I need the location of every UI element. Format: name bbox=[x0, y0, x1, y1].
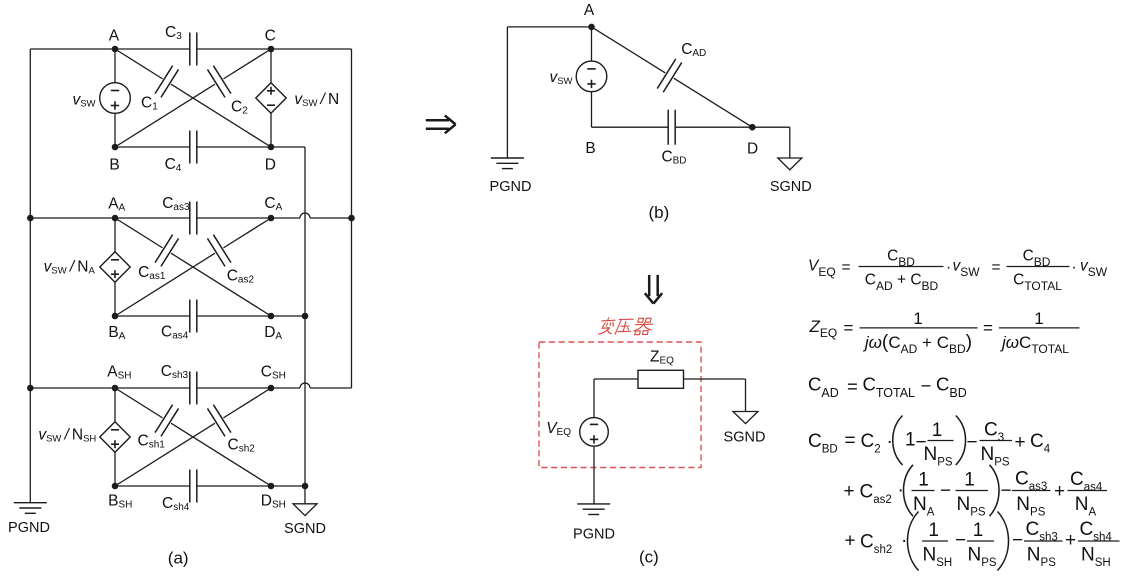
wire bottom row1 right segment bbox=[197, 146, 306, 148]
wire diagonal A to D row2 bbox=[115, 218, 163, 248]
svg-text:PGND: PGND bbox=[8, 520, 50, 536]
svg-text:−: − bbox=[921, 375, 932, 396]
left paren 4a bbox=[893, 416, 903, 465]
node ASH bbox=[112, 385, 119, 392]
svg-text:−: − bbox=[940, 481, 951, 502]
equation ZEQ line 2 bbox=[809, 309, 1080, 356]
ground PGND (b) bbox=[491, 158, 524, 169]
node BSH bbox=[112, 483, 119, 490]
ground PGND (c) bbox=[577, 504, 610, 515]
wire source bottom to PGND bbox=[593, 446, 595, 504]
junction inner rail row3 bbox=[302, 483, 309, 490]
arrow implies right bbox=[426, 116, 456, 134]
wire left rail bbox=[29, 49, 31, 503]
svg-text:·: · bbox=[901, 531, 907, 552]
voltage source vSW bbox=[100, 83, 131, 114]
capacitor Cas4 bbox=[190, 300, 197, 333]
svg-text:SGND: SGND bbox=[770, 179, 812, 195]
wire D to SGND corner bbox=[752, 126, 790, 128]
svg-text:·: · bbox=[1072, 259, 1077, 276]
svg-text:D: D bbox=[747, 141, 758, 158]
junction inner rail row2 bbox=[302, 313, 309, 320]
junction left rail row3 bbox=[27, 385, 34, 392]
wire bottom row1 left segment bbox=[115, 146, 190, 148]
capacitor CBD bbox=[668, 110, 675, 145]
capacitor Cas2 bbox=[207, 235, 230, 267]
svg-text:=: = bbox=[992, 259, 1001, 276]
wire bottom row3 right segment bbox=[197, 485, 306, 487]
svg-text:+: + bbox=[1065, 530, 1076, 551]
svg-text:1: 1 bbox=[928, 520, 939, 541]
wire top row2 left segment bbox=[30, 217, 189, 219]
wire ZEQ to SGND corner bbox=[684, 378, 746, 380]
svg-text:=: = bbox=[844, 319, 854, 338]
wire diagonal C to B row1 bbox=[223, 49, 271, 79]
capacitor CAD bbox=[657, 59, 681, 92]
equation CBD line 4c bbox=[845, 512, 1120, 571]
wire right outer rail bbox=[351, 49, 353, 388]
junction left rail row2 bbox=[27, 215, 34, 222]
wire A to PGND corner bbox=[507, 26, 591, 28]
equation CAD line 3 bbox=[808, 374, 967, 401]
node D (b) bbox=[749, 124, 756, 131]
capacitor Cas1 bbox=[155, 235, 178, 267]
svg-text:1: 1 bbox=[932, 420, 943, 441]
wire top row3 left segment bbox=[30, 387, 189, 389]
wire bottom row2 left segment bbox=[115, 315, 190, 317]
capacitor Csh2 bbox=[207, 405, 230, 437]
svg-text:−: − bbox=[1012, 530, 1023, 551]
wire bottom row2 right segment bbox=[197, 315, 306, 317]
node A (b) bbox=[588, 24, 595, 31]
wire source column left row2 bbox=[114, 218, 116, 252]
dependent source vSW/NSH bbox=[100, 422, 130, 452]
wire source column left row3 bbox=[114, 388, 116, 422]
capacitor Cas3 bbox=[190, 202, 197, 235]
right paren 4b bbox=[990, 465, 1000, 516]
wire diagonal A to D bbox=[592, 27, 666, 73]
svg-text:1: 1 bbox=[1034, 309, 1043, 328]
svg-text:+: + bbox=[845, 531, 856, 552]
node A bbox=[112, 46, 119, 53]
wire A to source bbox=[591, 27, 593, 61]
svg-text:1: 1 bbox=[918, 470, 929, 491]
node AA bbox=[112, 215, 119, 222]
svg-text:·: · bbox=[887, 432, 893, 453]
wire top row2 mid segment bbox=[197, 217, 301, 219]
wire top row1 left segment bbox=[30, 48, 189, 50]
svg-text:B: B bbox=[109, 156, 119, 173]
capacitor C3 bbox=[190, 33, 197, 66]
svg-text:PGND: PGND bbox=[490, 179, 532, 195]
svg-text:+: + bbox=[844, 481, 855, 502]
right paren 4a bbox=[956, 416, 966, 465]
node BA bbox=[112, 313, 119, 320]
svg-text:SGND: SGND bbox=[284, 521, 326, 537]
voltage source VEQ bbox=[580, 418, 609, 447]
ground PGND (a) bbox=[14, 503, 47, 514]
svg-text:vSW / N: vSW / N bbox=[294, 91, 339, 109]
svg-text:SGND: SGND bbox=[724, 430, 766, 446]
svg-text:1: 1 bbox=[964, 470, 975, 491]
wire inner rail D to SGND bbox=[304, 147, 306, 504]
svg-text:·: · bbox=[946, 259, 951, 276]
node CA bbox=[268, 215, 275, 222]
svg-text:B: B bbox=[585, 140, 595, 157]
svg-text:(a): (a) bbox=[168, 549, 189, 568]
wire hop over inner rail bbox=[300, 383, 310, 388]
node DSH bbox=[268, 483, 275, 490]
svg-text:C: C bbox=[265, 28, 276, 45]
capacitor Csh1 bbox=[155, 405, 178, 437]
svg-text:D: D bbox=[265, 156, 276, 173]
capacitor C2 bbox=[207, 66, 230, 98]
equation CBD line 4b bbox=[844, 465, 1108, 519]
capacitor Csh3 bbox=[190, 372, 197, 405]
wire diagonal A to D row3 bbox=[115, 388, 163, 418]
svg-text:1: 1 bbox=[913, 309, 922, 328]
svg-text:−: − bbox=[967, 432, 978, 453]
wire top row2 to outer rail bbox=[310, 217, 352, 219]
svg-text:=: = bbox=[847, 375, 858, 396]
left paren 4b bbox=[903, 465, 913, 516]
transformer box (red dashed) bbox=[539, 342, 701, 468]
svg-text:A: A bbox=[109, 28, 120, 45]
wire top row3 mid segment bbox=[197, 387, 301, 389]
svg-text:=: = bbox=[842, 259, 851, 276]
ground SGND (c) bbox=[733, 412, 758, 424]
node B bbox=[112, 144, 119, 151]
node DA bbox=[268, 313, 275, 320]
wire B to D with cap gap bbox=[592, 126, 668, 128]
right paren 4c bbox=[998, 512, 1009, 571]
dependent source vSW/N bbox=[256, 83, 286, 113]
ground SGND (b) bbox=[778, 158, 802, 170]
arrow implies down bbox=[645, 275, 662, 304]
impedance ZEQ bbox=[638, 370, 684, 388]
capacitor Csh4 bbox=[190, 470, 197, 503]
label transformer (Chinese) bbox=[598, 318, 653, 335]
wire diagonal C to B row3 bbox=[223, 388, 271, 418]
wire diagonal A to D row1 bbox=[115, 49, 163, 79]
wire source top to ZEQ bbox=[593, 379, 595, 418]
left paren 4c bbox=[907, 512, 918, 571]
node D bbox=[268, 144, 275, 151]
wire source column right row1 bbox=[270, 49, 272, 83]
svg-text:(c): (c) bbox=[639, 548, 659, 567]
wire source to B bbox=[591, 92, 593, 128]
wire diagonal C to B row2 bbox=[223, 218, 271, 248]
wire top row3 to outer rail bbox=[310, 387, 352, 389]
dependent source vSW/NA bbox=[100, 252, 130, 282]
svg-text:+: + bbox=[1054, 481, 1065, 502]
capacitor C1 bbox=[155, 66, 178, 98]
svg-text:1: 1 bbox=[905, 430, 916, 451]
voltage source vSW (b) bbox=[576, 61, 607, 92]
svg-text:PGND: PGND bbox=[573, 527, 615, 543]
svg-text:A: A bbox=[584, 2, 595, 19]
node CSH bbox=[268, 385, 275, 392]
ground SGND (a) bbox=[293, 504, 317, 516]
equation VEQ line 1 bbox=[808, 248, 1108, 293]
junction outer rail row2 bbox=[348, 215, 355, 222]
svg-text:=: = bbox=[983, 319, 993, 338]
svg-text:=: = bbox=[845, 431, 856, 452]
svg-text:(b): (b) bbox=[649, 203, 670, 222]
wire top row1 right segment to outer rail bbox=[197, 48, 352, 50]
svg-text:−: − bbox=[1001, 481, 1012, 502]
capacitor C4 bbox=[190, 131, 197, 164]
equation CBD line 4a bbox=[808, 416, 1051, 469]
svg-text:−: − bbox=[955, 530, 966, 551]
svg-text:+: + bbox=[1015, 432, 1026, 453]
wire hop over inner rail bbox=[300, 213, 310, 218]
wire source column left row1 bbox=[114, 49, 116, 83]
svg-text:1: 1 bbox=[973, 520, 984, 541]
node C bbox=[268, 46, 275, 53]
wire bottom row3 left segment bbox=[115, 485, 190, 487]
